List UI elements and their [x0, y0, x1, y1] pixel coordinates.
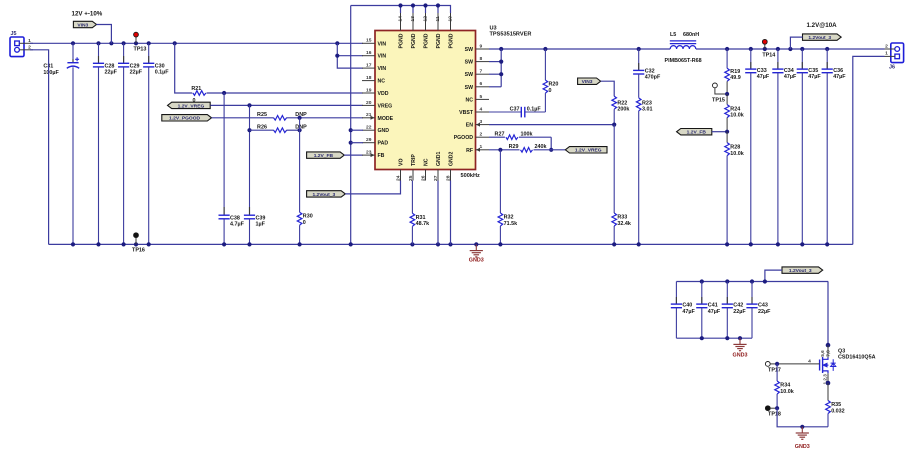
ground GND3 (Q3 source)	[795, 427, 810, 450]
junction PAD pin 29 to ground vertical	[349, 141, 363, 145]
capacitor C33 47µF (output)	[745, 49, 770, 244]
pin 2 PGOOD (right)	[454, 132, 489, 142]
svg-text:PGOOD: PGOOD	[454, 135, 474, 141]
pin 10 PGND (top)	[447, 12, 454, 49]
test point TP16	[132, 233, 145, 254]
wire 1.2Vout_3 to load cap rail	[765, 270, 782, 281]
test point TP13	[134, 32, 147, 52]
text TPS53515RVER part number	[490, 32, 532, 38]
resistor R23 3.01	[636, 98, 652, 245]
svg-text:10.0k: 10.0k	[730, 151, 744, 157]
pin 25 TRIP (bottom)	[408, 154, 417, 181]
pin 9 SW (right)	[465, 43, 489, 53]
svg-text:R19: R19	[730, 69, 740, 75]
capacitor C32 470pF (snubber)	[633, 49, 661, 98]
svg-text:47µF: 47µF	[708, 309, 721, 315]
pin 29 PAD (left)	[362, 137, 388, 147]
pin 7 SW (right)	[465, 69, 489, 79]
pin 24 VO (bottom)	[395, 159, 404, 182]
svg-text:11: 11	[435, 16, 441, 21]
junction R24/R28/flag node	[725, 130, 729, 134]
svg-text:VIN: VIN	[378, 41, 387, 47]
svg-text:71.5k: 71.5k	[504, 221, 517, 227]
junction R26 / R30 vertical	[298, 128, 302, 132]
svg-text:14: 14	[397, 16, 403, 22]
svg-text:TRIP: TRIP	[411, 154, 417, 166]
connector J6	[885, 43, 904, 71]
capacitor C35 47µF (output)	[797, 49, 822, 244]
svg-text:9: 9	[480, 43, 483, 49]
pin 5 NC (right)	[466, 94, 490, 104]
net flag 1.2Vout_3 (VO pin)	[307, 191, 346, 198]
junction RF line / R32	[498, 148, 502, 152]
svg-text:J6: J6	[889, 65, 895, 71]
svg-text:PGND: PGND	[424, 33, 430, 48]
svg-text:10.0k: 10.0k	[780, 389, 794, 395]
test point TP17	[765, 362, 781, 374]
svg-text:200k: 200k	[617, 107, 629, 113]
pin 6 SW (right)	[465, 81, 489, 91]
svg-text:25: 25	[408, 175, 414, 181]
svg-text:L5: L5	[670, 32, 676, 38]
svg-text:8: 8	[480, 56, 483, 62]
wire VO pin line	[345, 181, 400, 194]
svg-text:12: 12	[422, 16, 428, 22]
svg-text:PGND: PGND	[399, 33, 405, 48]
resistor R25 DNP	[257, 112, 307, 120]
wire GND1 pin to ground rail	[437, 181, 439, 245]
svg-text:18: 18	[366, 75, 372, 81]
junction dots load ground rail	[700, 336, 742, 340]
svg-text:C40: C40	[682, 303, 692, 309]
resistor R32 71.5k	[498, 150, 517, 245]
svg-text:7: 7	[480, 69, 483, 75]
svg-text:FB: FB	[378, 153, 385, 159]
junction dots load cap rail	[700, 279, 767, 283]
junction R19/R24/TP15 node	[725, 92, 729, 96]
junction EN line / R22 / R33	[612, 123, 616, 127]
junction MODE line / R30	[298, 116, 302, 120]
svg-text:1µF: 1µF	[256, 222, 266, 228]
wire ground vertical (PGND to ground rail)	[350, 6, 352, 245]
wire PGOOD to RF node	[550, 137, 552, 150]
svg-text:5,6: 5,6	[820, 350, 825, 357]
svg-text:22µF: 22µF	[733, 309, 746, 315]
svg-text:22µF: 22µF	[130, 70, 143, 76]
svg-text:28: 28	[445, 175, 451, 181]
IC U3 TPS53515RVER body	[375, 31, 476, 170]
wire VREG line	[210, 104, 363, 106]
svg-text:20: 20	[366, 100, 372, 106]
svg-text:47µF: 47µF	[757, 74, 770, 80]
svg-text:C34: C34	[784, 68, 794, 74]
svg-text:100k: 100k	[521, 131, 533, 137]
resistor R34 10.0k	[775, 364, 794, 408]
wire Q3 drain feed	[827, 282, 829, 346]
capacitor C28 22µF	[93, 43, 118, 244]
svg-text:1.2V_FB: 1.2V_FB	[314, 153, 334, 159]
svg-text:R26: R26	[257, 124, 267, 130]
svg-text:0.032: 0.032	[831, 408, 845, 414]
wire load cap ground rail	[676, 337, 752, 339]
svg-text:49.9: 49.9	[730, 75, 741, 81]
svg-text:47µF: 47µF	[784, 74, 797, 80]
junction TP18 node	[775, 406, 779, 410]
wire VIN rail branch to R21/VDD	[175, 43, 193, 93]
pin 8 SW (right)	[465, 56, 489, 66]
wire GND2 pin to ground rail	[450, 181, 452, 245]
wire 1.2Vout_3 flag to output rail	[790, 37, 802, 49]
svg-text:SW: SW	[465, 47, 473, 53]
svg-text:32.4k: 32.4k	[617, 221, 631, 227]
svg-text:47µF: 47µF	[808, 74, 821, 80]
svg-text:GND3: GND3	[469, 258, 484, 264]
svg-text:0.1µF: 0.1µF	[527, 107, 542, 113]
svg-text:R29: R29	[509, 144, 519, 150]
junction load ground node	[800, 425, 804, 429]
svg-text:680nH: 680nH	[683, 32, 699, 38]
svg-text:10: 10	[447, 16, 453, 22]
svg-text:TP13: TP13	[134, 47, 147, 53]
svg-text:VREG: VREG	[378, 103, 393, 109]
svg-text:R24: R24	[730, 106, 740, 112]
svg-text:CSD16410Q5A: CSD16410Q5A	[838, 355, 876, 361]
svg-text:VIN: VIN	[378, 54, 387, 60]
svg-text:C33: C33	[757, 68, 767, 74]
capacitor C31 100uF (polarized)	[43, 43, 79, 244]
pin 23 FB (left)	[362, 150, 385, 160]
svg-text:SW: SW	[465, 72, 473, 78]
resistor R31 48.7k (TRIP)	[410, 181, 429, 245]
pin 18 NC (left)	[362, 75, 385, 85]
svg-text:J5: J5	[11, 31, 17, 37]
svg-text:5: 5	[480, 94, 483, 100]
pin 20 VREG (left)	[362, 100, 392, 110]
svg-text:R28: R28	[730, 145, 740, 151]
svg-text:GND3: GND3	[733, 352, 748, 358]
wire PGND top rail	[351, 6, 451, 14]
resistor R28 10.0k	[725, 132, 744, 245]
svg-text:19: 19	[366, 87, 372, 93]
junction GND pin 22 to ground vertical	[349, 128, 363, 132]
capacitor C40 47µF (load)	[671, 282, 696, 339]
text 500kHz	[461, 173, 480, 179]
power flag VIN3	[73, 21, 96, 28]
svg-text:TP18: TP18	[768, 412, 781, 418]
svg-text:22: 22	[366, 125, 372, 131]
resistor R22 200k	[612, 96, 630, 124]
capacitor C30 0.1µF	[143, 43, 169, 244]
svg-text:TP14: TP14	[762, 52, 775, 58]
connector J5	[10, 31, 33, 57]
net flag 1.2Vout_3 (output)	[803, 34, 842, 41]
svg-text:13: 13	[410, 16, 416, 22]
capacitor C41 47µF (load)	[696, 282, 721, 339]
svg-text:26: 26	[420, 175, 426, 181]
text 1.2V@10A	[807, 22, 838, 29]
svg-text:17: 17	[366, 63, 372, 69]
text 12V +-10%	[72, 11, 103, 18]
pin 17 VIN (left)	[362, 63, 386, 73]
svg-text:TP16: TP16	[132, 247, 145, 253]
net flag 1.2V_FB (FB pin)	[307, 152, 363, 159]
svg-text:R35: R35	[831, 402, 841, 408]
wire J5 pin2 ground return	[30, 50, 49, 245]
power flag VIN3 (EN pullup)	[578, 78, 601, 85]
net flag 1.2V_FB (divider tap)	[677, 129, 728, 136]
svg-text:C35: C35	[808, 68, 818, 74]
pin 28 GND2 (bottom)	[445, 151, 454, 181]
ground GND3 (main rail)	[469, 244, 484, 263]
svg-text:SW: SW	[465, 85, 473, 91]
svg-text:PGND: PGND	[449, 33, 455, 48]
svg-text:1.2V_VREG: 1.2V_VREG	[178, 103, 205, 109]
svg-text:48.7k: 48.7k	[416, 221, 430, 227]
svg-text:EN: EN	[466, 123, 473, 129]
svg-text:15: 15	[366, 38, 372, 44]
capacitor C42 22µF (load)	[722, 282, 747, 339]
svg-text:GND: GND	[378, 128, 390, 134]
svg-text:12V +-10%: 12V +-10%	[72, 11, 103, 18]
net flag 1.2V_PGOOD	[162, 115, 212, 122]
resistor R26 DNP	[247, 124, 307, 132]
svg-text:29: 29	[366, 137, 372, 143]
svg-text:C43: C43	[758, 303, 768, 309]
svg-text:VO: VO	[399, 159, 405, 167]
svg-text:VIN: VIN	[378, 66, 387, 72]
wire R35 to ground corner	[802, 426, 828, 428]
junction dots SW rail	[499, 47, 641, 51]
svg-text:1.2V_FB: 1.2V_FB	[687, 130, 707, 136]
svg-text:27: 27	[433, 175, 439, 181]
resistor R33 32.4k	[612, 125, 631, 245]
svg-text:R25: R25	[257, 112, 267, 118]
svg-text:0: 0	[549, 88, 552, 94]
inductor L5 680nH	[665, 32, 702, 64]
svg-text:R30: R30	[303, 214, 313, 220]
svg-text:C38: C38	[230, 216, 240, 222]
wire ground bottom rail	[49, 243, 853, 245]
pin 21 MODE (left)	[362, 112, 394, 122]
svg-text:NC: NC	[378, 79, 386, 85]
svg-text:VIN3: VIN3	[582, 79, 593, 85]
pin 4 VBST (right)	[459, 106, 489, 116]
svg-text:2: 2	[885, 44, 888, 50]
capacitor C38 4.7uF	[219, 93, 245, 244]
resistor R35 0.032	[826, 383, 845, 427]
svg-text:1.2Vout_3: 1.2Vout_3	[312, 192, 335, 198]
junction VDD line / C38	[222, 91, 226, 95]
capacitor C43 22µF (load)	[746, 282, 771, 339]
capacitor C34 47µF (output)	[772, 49, 797, 244]
svg-text:GND2: GND2	[449, 151, 455, 166]
svg-text:2: 2	[480, 132, 483, 138]
svg-text:47µF: 47µF	[682, 309, 695, 315]
junction Q3 source node	[826, 381, 831, 386]
junction RF node	[549, 148, 553, 152]
wire VIN3 flag to rail	[97, 25, 112, 44]
wire Q3 gate line	[777, 363, 820, 365]
svg-text:C39: C39	[256, 216, 266, 222]
wire R34 to ground corner	[777, 408, 802, 427]
pin 27 GND1 (bottom)	[433, 151, 442, 181]
resistor R29 240k	[489, 144, 565, 152]
svg-text:10.0k: 10.0k	[730, 113, 744, 119]
svg-text:24: 24	[395, 175, 401, 181]
svg-text:NC: NC	[424, 158, 430, 166]
wire SW pins 8/7/6 branch	[489, 49, 503, 87]
svg-text:PAD: PAD	[378, 141, 389, 147]
pin 15 VIN (left)	[362, 38, 386, 48]
resistor R21 0	[191, 86, 363, 104]
svg-text:PIMB065T-R68: PIMB065T-R68	[665, 58, 702, 64]
pin 11 PGND (top)	[435, 12, 442, 49]
svg-text:1.2V@10A: 1.2V@10A	[807, 22, 838, 29]
svg-text:4: 4	[480, 106, 483, 112]
capacitor C37 0.1uF (VBST)	[489, 107, 545, 118]
junction VREG line / C39	[247, 103, 251, 107]
svg-text:C32: C32	[645, 69, 655, 75]
svg-text:C37: C37	[510, 107, 520, 113]
wire EN line	[489, 124, 614, 126]
pin 12 PGND (top)	[422, 12, 429, 49]
svg-text:C30: C30	[155, 64, 165, 70]
junction dots output rail	[725, 47, 829, 51]
svg-text:16: 16	[366, 50, 372, 56]
net flag 1.2V_VREG (RF divider)	[565, 147, 607, 154]
svg-text:TP17: TP17	[768, 367, 781, 373]
svg-text:PGND: PGND	[411, 33, 417, 48]
wire MODE line	[212, 117, 364, 119]
wire load cap top rail	[676, 281, 828, 283]
test point TP18	[765, 406, 781, 418]
pin 19 VDD (left)	[362, 87, 389, 97]
pin 22 GND (left)	[362, 125, 389, 135]
svg-text:R33: R33	[617, 215, 627, 221]
svg-text:240k: 240k	[535, 144, 547, 150]
svg-text:470pF: 470pF	[645, 75, 661, 81]
svg-text:R27: R27	[495, 131, 505, 137]
svg-text:3.01: 3.01	[642, 107, 653, 113]
wire VIN rail to VIN16/VIN17 pins	[335, 43, 363, 68]
svg-text:R22: R22	[617, 100, 627, 106]
svg-text:PGND: PGND	[436, 33, 442, 48]
pin 26 NC (bottom)	[420, 158, 429, 181]
ground GND3 (load caps)	[733, 338, 748, 358]
svg-text:SW: SW	[465, 60, 473, 66]
pin 16 VIN (left)	[362, 50, 386, 60]
junction dots ground rail	[71, 242, 829, 246]
svg-text:100µF: 100µF	[43, 70, 59, 76]
svg-text:NC: NC	[466, 97, 474, 103]
svg-text:R23: R23	[642, 100, 652, 106]
svg-text:1.2V_VREG: 1.2V_VREG	[575, 148, 602, 154]
svg-text:4.7µF: 4.7µF	[230, 222, 245, 228]
svg-text:0.1µF: 0.1µF	[155, 70, 170, 76]
svg-text:R20: R20	[549, 82, 559, 88]
test point TP14	[762, 39, 775, 58]
wire J6 pin1 ground return	[853, 56, 885, 244]
pin 13 PGND (top)	[410, 12, 417, 49]
svg-text:GND3: GND3	[795, 444, 810, 449]
svg-text:C29: C29	[130, 64, 140, 70]
svg-text:22µF: 22µF	[758, 309, 771, 315]
capacitor C39 1uF	[244, 105, 266, 244]
resistor R20 0	[543, 49, 558, 112]
svg-text:RF: RF	[466, 148, 473, 154]
svg-text:22µF: 22µF	[105, 70, 118, 76]
junction dots PGND rail	[398, 3, 440, 7]
pin 3 EN (right)	[466, 119, 489, 129]
wire 12V VIN rail	[30, 42, 363, 44]
pin 14 PGND (top)	[397, 12, 404, 49]
junction dots on VIN rail	[71, 41, 340, 45]
svg-text:U3: U3	[490, 26, 497, 32]
wire SW rail to inductor and output	[489, 48, 885, 50]
junction Q3 drain node	[826, 343, 831, 348]
svg-text:VBST: VBST	[459, 110, 474, 116]
svg-text:R32: R32	[504, 215, 514, 221]
resistor R19 49.9	[725, 49, 741, 94]
svg-text:7,8: 7,8	[825, 350, 830, 357]
svg-text:R34: R34	[780, 383, 790, 389]
svg-text:C28: C28	[105, 64, 115, 70]
pin 1 RF (right)	[466, 144, 489, 154]
resistor R27 100k (PGOOD pullup)	[489, 131, 551, 139]
wire VIN3 flag to R22	[601, 81, 615, 96]
resistor R30 0	[297, 118, 312, 245]
svg-text:1.2Vout_3: 1.2Vout_3	[808, 35, 831, 41]
svg-text:1.2V_PGOOD: 1.2V_PGOOD	[169, 116, 200, 122]
svg-text:0: 0	[303, 220, 306, 226]
capacitor C36 47µF (output)	[822, 49, 847, 244]
svg-text:C42: C42	[733, 303, 743, 309]
test point TP15	[712, 83, 727, 103]
net flag 1.2Vout_3 (load block)	[782, 267, 823, 274]
text U3 designator	[490, 26, 497, 32]
svg-text:GND1: GND1	[436, 151, 442, 166]
svg-text:MODE: MODE	[378, 116, 394, 122]
svg-text:500kHz: 500kHz	[461, 173, 480, 179]
svg-text:TP15: TP15	[712, 97, 725, 103]
svg-text:R21: R21	[191, 86, 201, 92]
svg-text:6: 6	[480, 81, 483, 87]
svg-text:1.2Vout_3: 1.2Vout_3	[789, 268, 812, 274]
svg-text:Q3: Q3	[838, 348, 845, 354]
junction gate node	[775, 362, 779, 366]
svg-text:R31: R31	[416, 215, 426, 221]
svg-text:C41: C41	[708, 303, 718, 309]
svg-text:1: 1	[885, 51, 888, 57]
svg-text:47µF: 47µF	[833, 74, 846, 80]
svg-text:TPS53515RVER: TPS53515RVER	[490, 32, 532, 38]
transistor Q3 CSD16410Q5A	[808, 345, 875, 384]
svg-text:C36: C36	[833, 68, 843, 74]
svg-text:VIN3: VIN3	[77, 22, 88, 28]
resistor R24 10.0k	[725, 94, 744, 132]
svg-text:VDD: VDD	[378, 91, 389, 97]
capacitor C29 22µF	[118, 43, 143, 244]
net flag 1.2V_VREG (VREG pin)	[168, 102, 211, 109]
